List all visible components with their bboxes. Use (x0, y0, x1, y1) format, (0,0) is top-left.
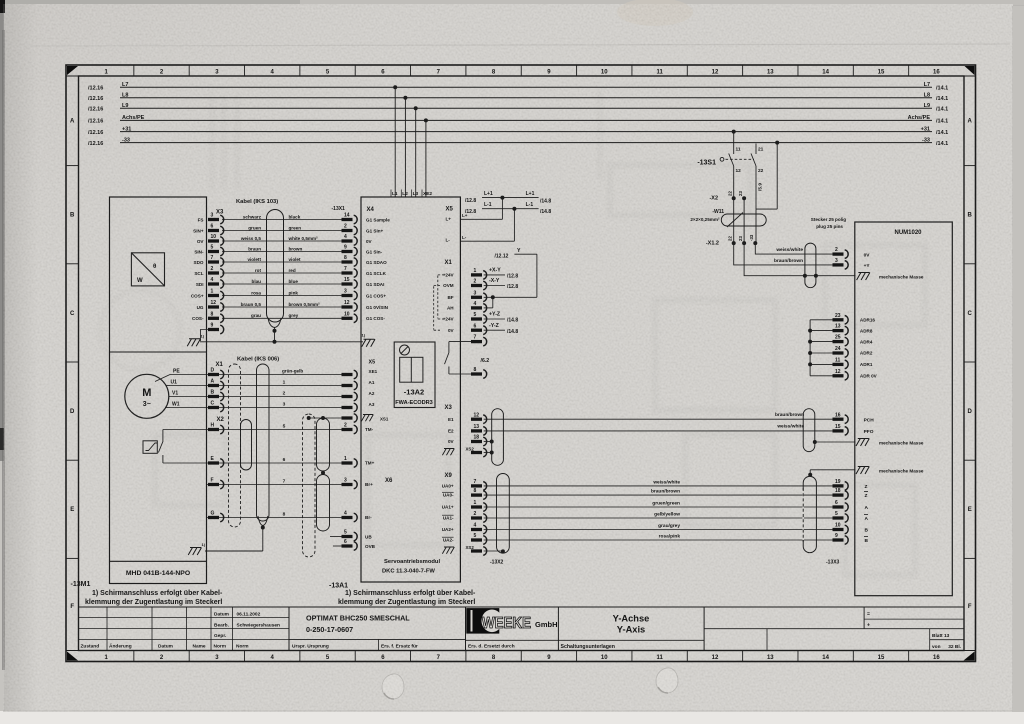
svg-text:SIN-: SIN- (194, 249, 204, 254)
pin X5:PE (342, 370, 358, 379)
svg-text:/14.8: /14.8 (540, 198, 551, 204)
wire E2 to NUM PFO (484, 430, 833, 432)
svg-text:braun/brown: braun/brown (774, 258, 803, 264)
svg-text:Änderung: Änderung (109, 643, 132, 650)
svg-text:/14.1: /14.1 (936, 141, 948, 147)
svg-text:22: 22 (728, 191, 733, 196)
shield oval NUM side upper (803, 409, 815, 452)
pin -13X1:8 (342, 255, 358, 266)
svg-text:white 0,5mm²: white 0,5mm² (288, 236, 319, 241)
pin X3:2 (208, 266, 224, 277)
svg-text:G1 SIn-: G1 SIn- (366, 249, 383, 254)
svg-text:C: C (70, 311, 75, 317)
svg-text:V1: V1 (172, 391, 178, 397)
svg-text:klemmung der Zugentlastung im: klemmung der Zugentlastung im Steckerl (338, 599, 475, 606)
ground symbol motor power shield 1) (188, 548, 201, 556)
ground symbol Masse 2 (856, 467, 869, 475)
wire ADR bus vertical (809, 320, 811, 376)
svg-text:weiss/white: weiss/white (776, 424, 804, 430)
svg-text:/12.16: /12.16 (88, 85, 103, 91)
svg-text:UA1-: UA1- (443, 516, 454, 521)
svg-text:-13S1: -13S1 (697, 159, 716, 166)
pin -13X1:14 (342, 213, 358, 224)
svg-text:25: 25 (835, 335, 841, 341)
pin plug:12 (833, 369, 849, 380)
svg-text:UA1+: UA1+ (442, 505, 454, 510)
svg-text:15: 15 (344, 277, 350, 283)
svg-text:22: 22 (758, 168, 764, 174)
pin X9:XS2 (471, 547, 487, 556)
svg-text:-33: -33 (922, 137, 930, 143)
svg-text:W1: W1 (172, 402, 180, 408)
svg-text:5: 5 (283, 423, 286, 429)
svg-text:red: red (289, 268, 296, 273)
svg-text:F: F (968, 604, 972, 610)
wire E1 to NUM PCH (484, 418, 833, 420)
wire X3 pin 3 schwarz/black (222, 219, 342, 221)
svg-text:15: 15 (878, 69, 885, 75)
svg-text:ADR16: ADR16 (860, 318, 876, 323)
svg-text:/5.9: /5.9 (758, 183, 764, 191)
svg-text:11: 11 (656, 69, 663, 75)
svg-text:AH: AH (447, 306, 454, 311)
svg-text:8: 8 (283, 511, 286, 517)
wire -Y-Z (484, 329, 505, 331)
shield oval plug W11 (805, 243, 816, 288)
svg-text:7: 7 (211, 255, 214, 261)
wire X9 braun/brown to NUM (484, 494, 833, 496)
svg-text:L+1: L+1 (484, 191, 493, 197)
wire bus -33 (120, 142, 932, 144)
svg-text:13: 13 (474, 424, 480, 430)
wire ADR4 (810, 341, 832, 343)
wire ADR2 (810, 352, 832, 354)
column number 13 bottom (797, 651, 799, 662)
svg-text:L9: L9 (122, 103, 128, 109)
svg-text:F: F (211, 478, 214, 484)
pin X9:7 (471, 479, 487, 490)
svg-text:1) Schirmanschluss erfolgt übe: 1) Schirmanschluss erfolgt über Kabel- (92, 590, 223, 597)
svg-text:von: von (932, 645, 941, 650)
svg-text:ADR 0V: ADR 0V (860, 374, 878, 379)
svg-text:GmbH: GmbH (535, 620, 558, 629)
svg-text:brown: brown (289, 246, 303, 251)
svg-text:E: E (968, 507, 972, 513)
svg-text:Bearb.: Bearb. (214, 622, 229, 628)
ground symbol X9 XS2 (442, 547, 454, 554)
scanner black mark left edge (0, 428, 4, 450)
wire bus L8 (120, 97, 932, 99)
svg-text:FS: FS (198, 217, 204, 222)
wire -33 through W11 (755, 209, 757, 243)
svg-text:0V: 0V (448, 439, 455, 444)
wire X2 G -> X6 Br- (207, 517, 342, 519)
svg-text:G1 SCLK: G1 SCLK (366, 271, 387, 276)
svg-text:11: 11 (656, 655, 663, 661)
svg-text:L1: L1 (392, 191, 398, 197)
pin X1:8 (471, 367, 487, 378)
svg-text:-X-Y: -X-Y (489, 278, 500, 284)
svg-text:12: 12 (835, 369, 841, 375)
wire ADR16 (810, 319, 832, 321)
pin X1:A (208, 379, 224, 390)
svg-text:X5: X5 (446, 207, 454, 213)
junction L3 (414, 106, 418, 110)
column number 10 top (631, 65, 633, 76)
brake cable shield upper (317, 418, 330, 471)
column number 12 top (742, 65, 744, 76)
svg-text:06.11.2002: 06.11.2002 (237, 612, 261, 618)
wire motor PE (170, 374, 342, 376)
svg-text:4: 4 (474, 523, 477, 529)
showthrough ghost marks (100, 90, 925, 575)
svg-text:/12.12: /12.12 (495, 254, 509, 260)
wire X3 pin 10 weiss 0,5/white 0,5mm² (222, 240, 342, 242)
svg-text:12: 12 (736, 168, 742, 174)
pin -13X1:10 (342, 311, 358, 322)
svg-text:Blatt 13: Blatt 13 (932, 633, 950, 639)
svg-text:L-1: L-1 (484, 202, 492, 208)
svg-text:15: 15 (878, 655, 885, 661)
pin X1:3 (471, 290, 487, 301)
svg-text:12: 12 (344, 300, 350, 306)
svg-text:braun: braun (248, 246, 261, 251)
svg-text:/14.8: /14.8 (540, 209, 551, 215)
svg-text:E: E (70, 507, 74, 513)
pin XS1 (342, 414, 358, 423)
switch 13S1 actuator (720, 157, 724, 161)
wire -X-Y (484, 285, 505, 287)
svg-text:UG: UG (197, 305, 204, 310)
servo module box -13A1 (361, 197, 460, 582)
svg-text:green: green (289, 225, 302, 230)
svg-text:D: D (968, 409, 973, 415)
wire +X-Y (484, 274, 505, 276)
pin plug:10 (833, 523, 849, 534)
svg-text:Br+: Br+ (365, 482, 373, 487)
svg-text:FWA-ECODR3: FWA-ECODR3 (395, 400, 433, 406)
svg-text:violett: violett (247, 257, 261, 262)
pin X9:1 (471, 500, 487, 511)
pin -13X1:15 (342, 277, 358, 288)
pin X1:2 (471, 279, 487, 290)
svg-text:/12.8: /12.8 (465, 198, 476, 204)
row tick right (964, 165, 976, 167)
svg-text:L3: L3 (413, 191, 419, 197)
motor unit box -13M1 (110, 197, 207, 584)
svg-text:23: 23 (738, 236, 743, 241)
motor M 3~ circle (125, 374, 169, 418)
svg-text:1: 1 (474, 268, 477, 274)
brake cable shield dashed outer (303, 414, 316, 557)
svg-text:5: 5 (344, 530, 347, 536)
wire bus Achs/PE (120, 119, 932, 121)
svg-text:L8: L8 (924, 93, 930, 99)
svg-text:12: 12 (712, 655, 719, 661)
svg-text:grau/grey: grau/grey (658, 523, 680, 529)
svg-text:G1 SDAO: G1 SDAO (366, 260, 387, 265)
svg-text:X5: X5 (369, 360, 376, 366)
svg-text:pink: pink (289, 290, 299, 295)
pin plug:13 (833, 324, 849, 335)
svg-text:L+: L+ (446, 217, 452, 222)
wire X9 gelb/yellow to NUM (484, 517, 833, 519)
svg-text:X6: X6 (385, 478, 393, 484)
svg-text:E1: E1 (448, 417, 454, 422)
svg-text:32 Bl.: 32 Bl. (948, 644, 961, 650)
svg-text:XE2: XE2 (423, 191, 432, 197)
svg-text:OVB: OVB (365, 544, 376, 549)
wire W1 from motor (165, 407, 170, 409)
pin X9:2 (471, 511, 487, 522)
svg-text:4: 4 (344, 511, 347, 517)
svg-text:OV: OV (197, 239, 205, 244)
svg-text:10: 10 (211, 234, 217, 240)
wire X2 E -> X6 TM+ (163, 462, 342, 464)
fold line faint (30, 44, 1010, 46)
pin -13X1:2 (342, 224, 358, 235)
pin X1:B (208, 390, 224, 401)
svg-text:blau: blau (252, 279, 262, 284)
svg-text:G1 COS+: G1 COS+ (366, 293, 386, 298)
wire shield to Masse 2 (809, 470, 811, 475)
pin -13X1:12 (342, 300, 358, 311)
wire X9 weiss/white to NUM (484, 485, 833, 487)
svg-text:6: 6 (835, 500, 838, 506)
ground symbol XS1 (361, 415, 373, 422)
svg-text:UA0-: UA0- (443, 493, 454, 498)
wire XS1 shield stub (309, 417, 342, 419)
svg-text:/12.16: /12.16 (88, 141, 103, 147)
svg-text:1: 1 (211, 289, 214, 295)
pin X3:18 (471, 435, 487, 446)
row tick left (66, 263, 79, 265)
pin plug:18 (833, 488, 849, 499)
column number 15 bottom (908, 651, 910, 662)
wire -33 to jog (776, 143, 778, 210)
motor block label compartment divider (110, 560, 207, 562)
shield oval X3 module side (492, 409, 504, 466)
svg-text:C: C (968, 311, 973, 317)
column number 12 bottom (742, 651, 744, 662)
svg-text:Z: Z (865, 493, 868, 499)
wire X9 rosa/pink to NUM (484, 539, 833, 541)
junction shield drain top (273, 329, 277, 333)
svg-text:B: B (70, 213, 75, 219)
pin X3:XS2 (471, 448, 487, 457)
svg-text:5: 5 (474, 312, 477, 318)
svg-text:grey: grey (289, 313, 299, 318)
svg-text:G1 COS-: G1 COS- (366, 316, 385, 321)
svg-text:X1: X1 (216, 362, 224, 368)
svg-text:13: 13 (767, 69, 774, 75)
wire L+1 link (482, 197, 539, 199)
wire X3 pin 6 gruen/green (222, 230, 342, 232)
svg-text:+X-Y: +X-Y (489, 268, 501, 274)
contact 13S1 21-22 (751, 144, 756, 210)
row tick left (66, 361, 79, 363)
row tick right (964, 263, 976, 265)
column number 11 top (686, 65, 688, 76)
column number 14 bottom (852, 651, 854, 662)
right info cells (863, 607, 865, 629)
svg-text:klemmung der Zugentlastung im: klemmung der Zugentlastung im Steckerl (85, 599, 222, 606)
svg-text:7: 7 (283, 478, 286, 484)
wire X9 gruen/green to NUM (484, 506, 833, 508)
svg-text:10: 10 (835, 523, 841, 529)
svg-text:/12.16: /12.16 (88, 130, 103, 136)
wire X9 XS2 to shield (484, 550, 503, 552)
svg-text:L-: L- (446, 238, 451, 243)
svg-text:3~: 3~ (143, 401, 151, 408)
column number 7 top (465, 65, 467, 76)
svg-text:L7: L7 (122, 82, 128, 88)
svg-text:0V: 0V (448, 328, 455, 333)
svg-text:1: 1 (474, 500, 477, 506)
svg-text:L-1: L-1 (526, 202, 534, 208)
svg-text:Gepr.: Gepr. (214, 633, 226, 639)
svg-text:11: 11 (835, 358, 841, 364)
svg-text:8: 8 (344, 255, 347, 261)
svg-text:MHD 041B-144-NPO: MHD 041B-144-NPO (126, 570, 190, 577)
row tick right (964, 557, 976, 559)
svg-text:Achs/PE: Achs/PE (122, 115, 145, 121)
pin X1:D (208, 368, 224, 379)
svg-text:13: 13 (767, 655, 774, 661)
wire X3 0V to shield (484, 441, 492, 443)
paper bottom edge (0, 711, 1024, 724)
svg-text:6: 6 (344, 539, 347, 545)
pin plug:16 (833, 412, 849, 423)
ground symbol NUM Masse plug (857, 273, 870, 281)
column number 8 top (520, 65, 522, 76)
pin X6:6 (342, 539, 358, 550)
svg-text:X3: X3 (216, 210, 224, 216)
svg-text:-33: -33 (122, 137, 130, 143)
svg-text:Name: Name (193, 644, 206, 650)
svg-text:=: = (867, 612, 870, 618)
wire U1 from motor (166, 385, 170, 387)
cell Urspr Ursprung (378, 639, 380, 650)
project box (288, 607, 290, 651)
svg-text:16: 16 (835, 412, 841, 418)
pin -13X1:3 (342, 289, 358, 300)
pin plug:5 (833, 511, 849, 522)
svg-text:+31: +31 (921, 126, 930, 132)
ground symbol module shield 1) (362, 339, 375, 347)
thermal contact (158, 430, 163, 464)
wire BF / Y net (484, 296, 537, 298)
column number 9 top (576, 65, 578, 76)
svg-text:gruen: gruen (248, 225, 261, 230)
frame outer border (66, 65, 976, 662)
svg-text:+Y-Z: +Y-Z (489, 312, 501, 318)
svg-text:Achs/PE: Achs/PE (908, 115, 931, 121)
column number 3 bottom (244, 651, 246, 662)
svg-text:+24V: +24V (443, 317, 455, 322)
pin X1:1 (471, 268, 487, 279)
svg-text:A: A (211, 379, 215, 385)
wire AH (484, 307, 493, 309)
svg-text:-W11: -W11 (712, 209, 724, 215)
svg-text:Schaltungsunterlagen: Schaltungsunterlagen (561, 644, 615, 650)
wire shield to Masse 1 (815, 441, 856, 443)
svg-text:Norm: Norm (214, 644, 227, 650)
pin -13X1:7 (342, 266, 358, 277)
svg-text:plug 25 pins: plug 25 pins (816, 224, 843, 229)
svg-text:schwarz: schwarz (243, 214, 262, 219)
svg-text:ADR2: ADR2 (860, 351, 873, 356)
svg-text:SDI: SDI (196, 282, 204, 287)
svg-text:Zustand: Zustand (81, 644, 100, 650)
brake cable shield lower (317, 475, 330, 532)
svg-text:Y: Y (517, 248, 521, 254)
svg-text:12: 12 (712, 69, 719, 75)
wire X3 pin 8 grau/grey (222, 317, 342, 319)
svg-text:/12.8: /12.8 (507, 274, 518, 280)
svg-text:2×2×0,25mm²: 2×2×0,25mm² (690, 217, 720, 222)
junction L1 (393, 85, 397, 89)
svg-text:9: 9 (835, 533, 838, 539)
column number 15 top (908, 65, 910, 76)
svg-text:10: 10 (601, 655, 608, 661)
svg-text:5: 5 (835, 511, 838, 517)
column number 5 top (354, 65, 356, 76)
svg-text:/12.16: /12.16 (88, 107, 103, 113)
wire bus L7 (120, 86, 932, 88)
svg-text:NUM1020: NUM1020 (894, 230, 922, 236)
motor block divider (110, 351, 207, 353)
wire XE2 drop from bus (425, 120, 427, 197)
svg-text:Norm: Norm (236, 644, 249, 650)
svg-text:12: 12 (474, 412, 480, 418)
pin X9:5 (471, 533, 487, 544)
svg-text:1: 1 (344, 456, 347, 462)
svg-text:Kabel (IKS 006): Kabel (IKS 006) (237, 357, 279, 363)
scanner black corner mark top-left (0, 0, 5, 13)
pin X1:6 (471, 323, 487, 334)
column number 1 bottom (133, 651, 135, 662)
svg-text:7: 7 (474, 479, 477, 485)
cable shield oval IKS006 outer dashed (229, 364, 241, 527)
svg-text:8: 8 (474, 367, 477, 373)
svg-text:BF: BF (447, 295, 453, 300)
svg-text:L7: L7 (924, 82, 930, 88)
pin X3:3 (208, 213, 224, 224)
pin X3:12 (208, 300, 224, 311)
corner triangle top-left (67, 66, 78, 75)
svg-text:15: 15 (835, 424, 841, 430)
frame header separators (66, 75, 79, 77)
svg-text:0-250-17-0607: 0-250-17-0607 (306, 625, 353, 634)
wire 12 down to X2 22 (733, 174, 735, 243)
wire OVB (333, 545, 342, 547)
svg-text:L8: L8 (122, 93, 128, 99)
punched hole right (656, 668, 678, 693)
svg-text:Y-Axis: Y-Axis (617, 625, 645, 635)
svg-text:+24V: +24V (443, 273, 455, 278)
cable shield IKS103 oval (267, 210, 284, 323)
pin X6:3 (342, 478, 358, 489)
wire PE diagonal from motor (155, 375, 170, 382)
svg-text:4: 4 (211, 277, 214, 283)
wire shield bus y341 (200, 341, 363, 343)
pin X5:W1 (342, 403, 358, 412)
wire ADR 0V (810, 375, 832, 377)
dashed link +24V (437, 276, 439, 319)
pin X2:F (208, 478, 224, 489)
pin X3:13 (471, 424, 487, 435)
